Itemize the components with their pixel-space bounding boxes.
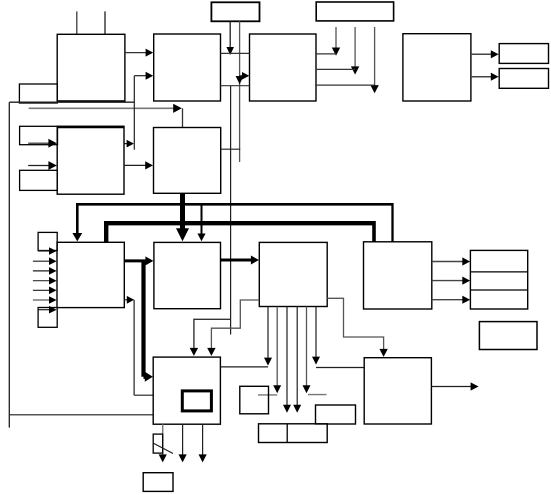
label box under B1 left	[19, 84, 57, 103]
wire B6 right to gray drop at y149	[221, 148, 241, 150]
B9 descender 2 (gray) with arrow at y393	[276, 307, 278, 386]
label box F	[240, 386, 269, 414]
wire B3 right stub 1	[316, 53, 336, 55]
diagonal slash over tiny box	[153, 443, 173, 454]
block B1	[57, 34, 125, 101]
wire B11 right to descender1 at y367	[220, 366, 268, 368]
label box T2	[316, 2, 393, 21]
arrow B4 to SB	[471, 76, 491, 78]
block B4	[403, 34, 471, 101]
block B10	[364, 242, 432, 309]
wire T2 descender 1 with arrow	[335, 27, 337, 49]
wire y395 into B11 left	[134, 394, 153, 396]
wire descender6 to B12 left at y367	[316, 367, 364, 369]
label box SD	[479, 322, 537, 350]
B9 descender 4 with arrow at y413	[296, 307, 298, 406]
wire from T1 down (gray), arrow onto B2-B3 connector, continues to y162	[239, 21, 241, 162]
block B8	[154, 242, 221, 308]
wire T2 descender 3 with arrow	[374, 27, 376, 86]
B9 descender 1 with arrow at y366	[267, 307, 269, 359]
wire long left vertical x9	[8, 102, 10, 427]
arrow from C into B5	[28, 142, 49, 144]
B9 descender 6 with arrow at y364	[315, 307, 317, 358]
block B7	[57, 242, 124, 307]
label box I	[316, 405, 356, 424]
thin arrow from bus1 down into B8	[201, 206, 203, 235]
B11 descender 3 with arrow	[202, 424, 204, 455]
label box E1	[38, 232, 57, 250]
label box C	[20, 126, 58, 144]
arrow above D into B5	[28, 165, 49, 167]
wire path B (gray): from B9 left, around and down into B11 top	[211, 300, 259, 349]
bus 2 left arm down to B7 top	[104, 221, 108, 242]
arrow B7 right into drop x134	[124, 299, 127, 301]
wire path A: from x230 line branch left and down into B11 top	[194, 319, 231, 349]
ladder arrow 4 into B7	[33, 280, 50, 282]
wire stub into block B1 top left	[76, 11, 78, 34]
arrow B10 to stack row2	[432, 280, 463, 282]
label box E2	[38, 308, 57, 328]
wire long horizontal y102	[9, 101, 134, 103]
bus 1 left arm with arrow into B7 top	[76, 203, 79, 234]
gray stub right of descender5	[308, 394, 327, 396]
big thick arrow B6 down into B8	[180, 193, 185, 229]
label box T1	[211, 2, 259, 21]
thick arrow B8 to B9	[221, 259, 252, 262]
thick inner rect of B11	[182, 391, 211, 411]
arrow from riser x134 into B2 at y76	[134, 75, 146, 77]
label box SA	[499, 44, 548, 64]
label box D	[20, 170, 58, 190]
arrow B12 right output	[431, 386, 471, 388]
block B2	[154, 34, 221, 101]
ladder arrow 6 into B7 (gray)	[33, 299, 50, 301]
wire T2 descender 2 with arrow	[354, 27, 356, 67]
wire drop x134 down to y395	[133, 300, 135, 395]
bus 2 horizontal y223	[106, 221, 374, 225]
wire B3 right stub 3	[316, 84, 375, 86]
thick branch down from B7-B8 arrow, into B11 left	[141, 260, 145, 377]
block B12	[364, 358, 431, 424]
ladder arrow 3 into B7	[33, 270, 50, 272]
wire stub into block B1 top right	[104, 11, 106, 34]
ladder arrow 7 into B7	[38, 309, 49, 311]
ladder arrow 2 into B7	[33, 260, 50, 262]
wire B3 right stub 2	[316, 68, 355, 70]
gray stub from F to descender2	[258, 394, 277, 396]
label box SB	[499, 69, 548, 89]
bus 2 right arm down to B10 top	[372, 221, 376, 242]
ladder arrow 1 into B7	[38, 250, 49, 252]
arrow B5 right into riser x134 at y144	[124, 143, 128, 145]
arrow B10 to stack row1	[432, 261, 463, 263]
label box J	[143, 473, 173, 492]
wire riser x182 down into B6 top	[182, 108, 184, 127]
wire connector B2 to B3 at y86	[221, 85, 250, 87]
wire arrow stub into B3 at y76	[240, 75, 243, 77]
thick arrow B7 to B8	[124, 259, 146, 262]
bus 1 right arm down to B10 top	[391, 203, 393, 242]
bus 1 horizontal y204	[76, 203, 393, 206]
B11 descender 1 (gray) with arrow	[162, 424, 164, 455]
thick top edge of B5	[57, 126, 124, 128]
block B5	[57, 126, 124, 194]
B11 descender 2 with arrow	[182, 424, 184, 455]
wire gray horizontal y108 with arrow into riser x182	[29, 107, 174, 109]
wire from T1 down, arrow onto connector	[229, 21, 231, 48]
tiny box on descender 1	[153, 434, 163, 453]
arrow B10 to stack row3	[432, 299, 463, 301]
arrow B5 to B6	[124, 164, 146, 166]
block B3	[250, 34, 317, 101]
double label box H	[259, 424, 328, 443]
block B11	[153, 357, 220, 424]
B9 descender 3 with arrow at y413	[286, 307, 288, 406]
block B6	[154, 128, 221, 194]
arrow B1 to B2 at y53	[125, 52, 146, 54]
stacked output box (3 rows)	[470, 250, 527, 309]
wire long left line into B11 left at y415	[9, 414, 153, 416]
wire vertical x230 from connector down to y334	[230, 86, 232, 335]
wire connector B2 to B3 at y53	[221, 52, 250, 54]
ladder arrow 5 into B7	[33, 289, 50, 291]
block B9	[259, 242, 327, 306]
wire path C (gray): from B9 right, around and down into B12 top	[327, 298, 383, 350]
wire riser x134 vertical y76-y150	[133, 76, 135, 150]
B9 descender 5 (gray) with arrow at y393	[306, 307, 308, 386]
arrow B4 to SA	[471, 53, 491, 55]
